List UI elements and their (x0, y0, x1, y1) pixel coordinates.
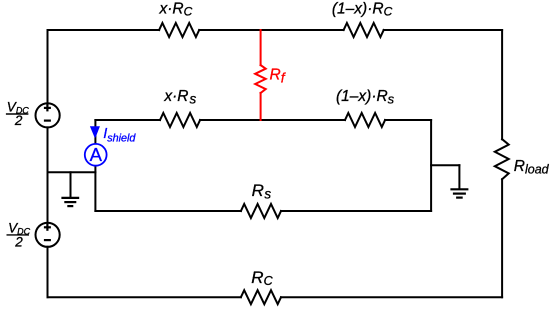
svg-text:2: 2 (14, 113, 23, 128)
svg-text:x·Rs: x·Rs (163, 88, 196, 106)
svg-text:x·RC: x·RC (159, 0, 193, 18)
svg-text:(1–x)·Rs: (1–x)·Rs (336, 88, 395, 106)
svg-text:(1–x)·RC: (1–x)·RC (332, 0, 393, 18)
svg-text:Ishield: Ishield (103, 126, 136, 144)
svg-text:A: A (90, 144, 103, 165)
svg-text:Rf: Rf (270, 67, 287, 86)
svg-text:Rload: Rload (514, 158, 550, 177)
svg-text:RC: RC (251, 268, 273, 288)
svg-text:2: 2 (14, 234, 23, 249)
svg-text:Rs: Rs (252, 181, 272, 201)
